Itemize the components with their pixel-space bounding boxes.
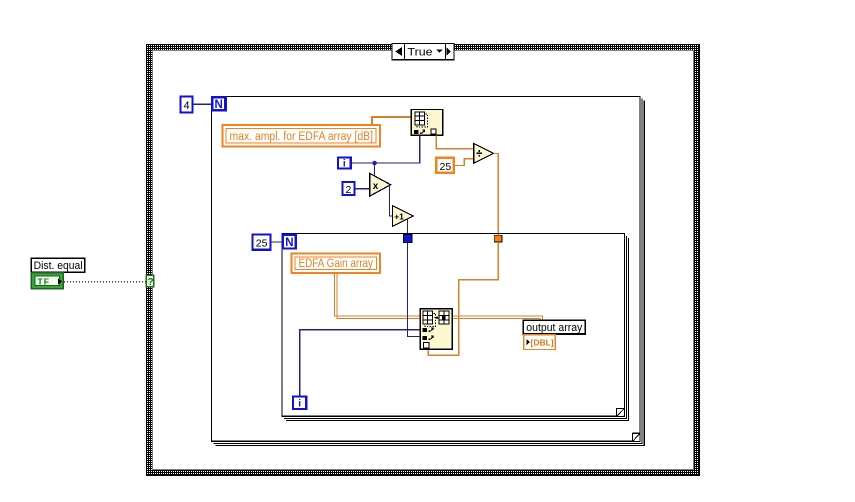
junction dot [372,161,377,166]
wire divide to orange tunnel [494,153,499,235]
svg-text:max. ampl. for EDFA array [dB]: max. ampl. for EDFA array [dB] [230,131,374,143]
svg-text:True: True [408,46,433,58]
wire i to junction to Index Array [352,135,420,163]
wire 2 to multiply [355,188,370,190]
Index Array node [411,110,443,136]
constant 2 [343,182,355,196]
multiply node [370,173,391,196]
inner loop iteration terminal i [293,397,306,410]
orange tunnel on inner loop border [494,235,502,242]
outer for loop shadow frames [214,99,645,446]
wire 4 to N [193,103,212,105]
wire junction to multiply [374,163,376,178]
svg-text:output array: output array [526,322,582,334]
outer loop iteration terminal i [338,158,351,170]
label output array [523,320,585,334]
outer loop count terminal N [212,97,225,111]
inner for loop frame [282,234,625,417]
svg-text:i: i [298,399,301,410]
wire EDFA Gain array to Replace Array Subset (2D array double) [335,273,421,318]
outer for loop fold corner [632,433,640,442]
Replace Array Subset node [420,309,452,350]
case structure border (checkered frame) [146,44,700,476]
wire multiply to +1 [389,185,392,216]
label max. ampl. for EDFA array [dB] [222,125,380,147]
inner for loop fold corner [617,408,625,416]
svg-text:i: i [343,158,346,169]
svg-text:?: ? [148,277,154,288]
wire +1 to blue tunnel [407,219,409,234]
wire label to Index Array (1D array orange) [372,117,411,124]
svg-text:N: N [215,99,223,111]
svg-text:TF: TF [38,276,50,286]
svg-text:x: x [373,181,379,192]
inner for loop shadow frames [284,236,628,421]
constant 25 (blue) [253,234,271,249]
wire blue tunnel down into inner loop [408,242,421,336]
wire 25 to inner N [271,241,282,243]
constant 25 (orange DBL) [436,158,453,173]
divide node [474,144,494,164]
constant 4 [180,96,192,112]
boolean control TF (Dist. equal) [31,273,63,289]
svg-text:N: N [285,237,293,249]
svg-text:2: 2 [346,184,352,196]
increment node +1 [393,206,414,227]
svg-text:25: 25 [440,161,452,173]
svg-text:[DBL]: [DBL] [531,338,554,348]
svg-text:EDFA Gain array: EDFA Gain array [299,258,374,270]
indicator [DBL] output array [524,335,555,350]
case selector label True [392,44,455,60]
svg-text:Dist. equal: Dist. equal [34,260,83,272]
svg-text:4: 4 [184,100,190,112]
boolean wire (dotted) TF to ? [64,281,146,283]
label Dist. equal [31,258,85,272]
svg-text:25: 25 [256,238,268,250]
wire index array to divide [436,135,474,148]
svg-text:+1: +1 [394,212,404,222]
wire inner i to Replace Array Subset [300,330,421,396]
wire orange tunnel to Replace Array Subset bottom [428,242,498,355]
blue tunnel on inner loop border [403,234,412,242]
wire 25 to divide [454,159,474,166]
case selector terminal ? [146,275,154,288]
outer for loop frame [212,97,641,442]
label EDFA Gain array [292,253,381,273]
inner loop count terminal N [283,235,296,249]
wire Replace Array Subset to output array indicator (2D double) [452,316,542,335]
